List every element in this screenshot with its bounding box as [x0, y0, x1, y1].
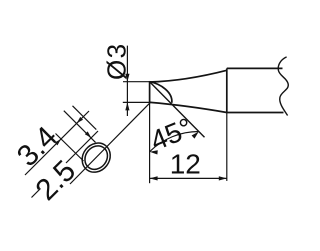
- 45 arc right arrow: [192, 130, 201, 139]
- dia3 bottom extension line: [123, 101, 152, 103]
- shank joint vertical line: [226, 68, 228, 112]
- 45 arc left arrow: [149, 150, 157, 155]
- 12 dimension line: [150, 177, 227, 179]
- shank top edge: [227, 67, 283, 69]
- E1 arrow pointing SE: [85, 131, 93, 139]
- detail inner ellipse: [80, 141, 112, 173]
- 2.5 dimension rail NE part: [66, 131, 98, 163]
- 12 dim left arrow: [150, 176, 158, 180]
- 12 dim right extension line: [226, 113, 228, 181]
- rail1 arrow NE pointing SW: [75, 117, 83, 125]
- extension line E0: [56, 134, 84, 162]
- break wave line: [278, 57, 288, 116]
- dia3 dimension line: [126, 46, 128, 116]
- bevel chord + 45deg leader line: [150, 82, 205, 138]
- extension line E2: [73, 106, 97, 130]
- svg-text:Ø3: Ø3: [102, 42, 132, 80]
- svg-text:12: 12: [170, 149, 201, 180]
- detail leader line: [70, 102, 151, 184]
- 12 dim right arrow: [219, 176, 227, 180]
- dia3 arrow pointing down: [125, 74, 129, 82]
- 3.4 dimension rail: [25, 111, 89, 175]
- dia3 top extension line: [123, 81, 151, 83]
- rail1 arrow SW pointing NE: [55, 138, 63, 146]
- dia3 arrow pointing up: [125, 102, 129, 110]
- extension line E1: [64, 111, 96, 143]
- 12 dim left extension line: [149, 103, 151, 184]
- soldering tip front face edge: [149, 81, 151, 103]
- tip cone top edge: [150, 70, 227, 82]
- detail outer ellipse: [76, 137, 116, 177]
- bevel face arc (half ellipse): [150, 82, 172, 103]
- 45deg angle arc: [150, 132, 199, 152]
- shank bottom edge: [227, 112, 284, 114]
- 2.5 dimension rail SW stub: [32, 189, 41, 198]
- tip cone bottom edge: [150, 102, 227, 112]
